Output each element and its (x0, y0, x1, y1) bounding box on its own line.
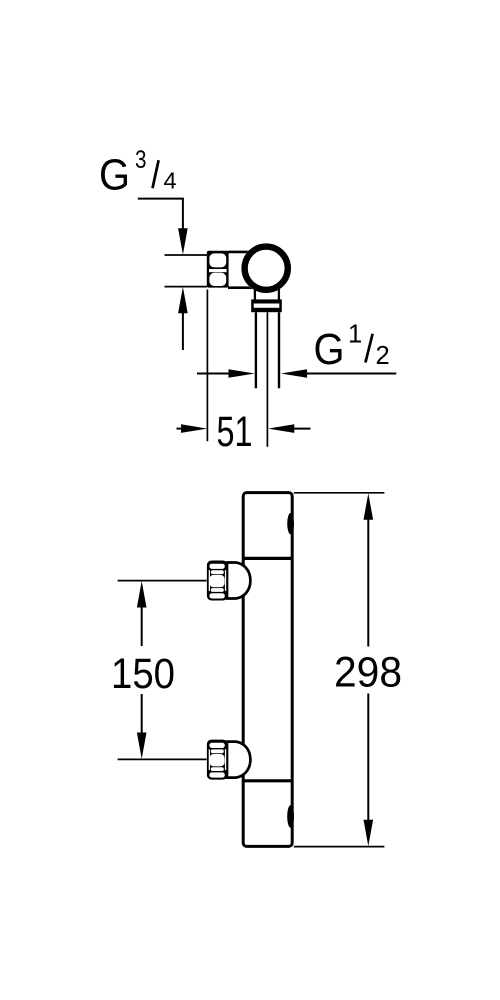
svg-text:2: 2 (376, 342, 390, 370)
body divider upper (243, 557, 292, 560)
G 1/2 dimension left arrow (197, 373, 231, 375)
dimension 298 line + arrows (364, 493, 374, 520)
extension line thread bottom (165, 286, 207, 288)
collar ring (251, 299, 282, 312)
union nut G 3/4 (side view) (207, 251, 229, 288)
dimension 51 left arrow (177, 428, 185, 430)
label G 3/4 text (99, 146, 177, 200)
pipe right wall (278, 312, 280, 388)
ball joint circle (241, 243, 291, 293)
arrow down to nut thread top (178, 228, 188, 254)
svg-text:3: 3 (135, 146, 147, 174)
svg-text:G: G (99, 151, 130, 200)
svg-text:4: 4 (164, 167, 177, 193)
arrow tail below (182, 311, 184, 350)
svg-text:G: G (314, 325, 345, 374)
body bottom edge (228, 286, 254, 289)
lower knob marker on right edge (287, 805, 294, 828)
dimension 150 line + arrows (137, 581, 147, 608)
extension line thread top (165, 254, 207, 256)
upper inlet connection (dome + hex nut) (207, 561, 251, 601)
body divider lower (243, 779, 292, 782)
G 1/2 dimension right arrow (281, 369, 307, 378)
extension line 150 bottom (118, 758, 207, 760)
svg-text:150: 150 (111, 650, 175, 698)
extension line 298 bottom (294, 846, 385, 848)
mixer body outline (243, 493, 292, 847)
pipe left wall (255, 312, 257, 388)
svg-text:1: 1 (348, 320, 362, 348)
dimension 51 right arrow (268, 424, 294, 433)
extension line 298 top (294, 492, 385, 494)
lower inlet connection (dome + hex nut) (207, 740, 251, 780)
svg-text:298: 298 (334, 649, 402, 697)
label G 1/2 text (314, 320, 390, 374)
extension line 150 top (118, 580, 207, 582)
svg-text:51: 51 (217, 408, 253, 456)
fraction slash of G 3/4 (153, 160, 159, 188)
body between nut and ball joint, top edge (228, 251, 256, 254)
leader line from G 3/4 label (138, 199, 183, 232)
arrow up to nut thread bottom (178, 287, 188, 313)
fraction slash of G 1/2 (365, 334, 372, 363)
neck below ball joint (254, 289, 256, 300)
extension line left for 51 (206, 290, 208, 442)
pipe center line (266, 312, 268, 447)
upper knob marker on right edge (287, 513, 294, 534)
